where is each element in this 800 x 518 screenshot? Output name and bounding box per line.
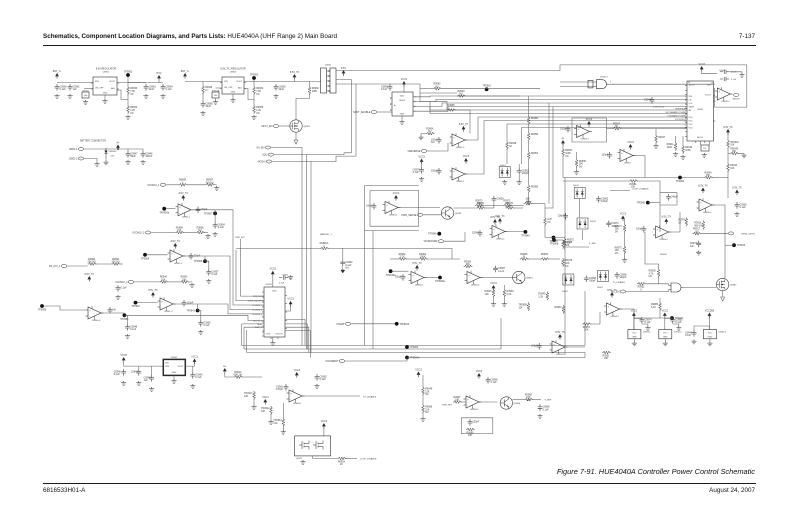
power P34 VCC3 xyxy=(191,355,198,364)
node N49 label U0954-2 xyxy=(674,332,683,334)
wire W93 xyxy=(124,315,127,324)
svg-text:8.5V_TX: 8.5V_TX xyxy=(555,331,565,334)
svg-text:10: 10 xyxy=(684,121,686,123)
wire W132 xyxy=(590,312,600,324)
node N20 label D0951 xyxy=(500,165,507,167)
wire W47 xyxy=(727,132,729,139)
wire W107 xyxy=(511,205,524,207)
resistor R0897 xyxy=(562,148,573,158)
svg-text:TP0949: TP0949 xyxy=(521,235,530,238)
svg-text:VCC3: VCC3 xyxy=(620,212,627,215)
wire W56 xyxy=(427,143,448,151)
transistor Q0992 inner right xyxy=(313,441,323,450)
op-amp U0949-3 xyxy=(618,149,636,165)
svg-text:D0962: D0962 xyxy=(597,287,604,289)
svg-text:8.5V_TX: 8.5V_TX xyxy=(412,262,422,265)
wire WTEMP1 xyxy=(242,323,264,325)
resistor R0966 xyxy=(202,85,213,94)
svg-text:GA_EN: GA_EN xyxy=(256,147,264,150)
svg-text:1K: 1K xyxy=(522,256,525,259)
capacitor C0952b xyxy=(108,307,117,314)
wire W92 xyxy=(101,312,124,314)
svg-text:J0951-2: J0951-2 xyxy=(69,158,78,161)
svg-text:22uF: 22uF xyxy=(206,105,212,108)
svg-text:U0952: U0952 xyxy=(399,100,406,102)
svg-text:240pF: 240pF xyxy=(671,195,678,198)
power P32 8.5V_TX xyxy=(555,331,565,340)
svg-text:VFB: VFB xyxy=(165,366,170,368)
svg-text:10K: 10K xyxy=(182,279,187,282)
power P33 VCC5 xyxy=(121,354,128,363)
wire WBIGR1 xyxy=(584,291,586,346)
svg-text:+: + xyxy=(290,392,292,395)
capacitor C0965 xyxy=(201,101,214,108)
resistor R0940 xyxy=(704,171,713,179)
svg-text:NU: NU xyxy=(649,275,653,278)
wire WB8b xyxy=(560,123,687,125)
wire WB9b xyxy=(560,127,687,129)
wire W131 xyxy=(503,297,505,302)
ground G11 xyxy=(251,115,256,119)
testpoint TP6 xyxy=(204,212,217,216)
resistor R0942b xyxy=(682,145,693,154)
resistor R0960 xyxy=(308,86,319,95)
wire W318 xyxy=(634,317,672,319)
ground G23 xyxy=(574,170,579,174)
svg-text:-: - xyxy=(179,212,180,215)
resistor R0968 xyxy=(527,184,538,193)
ground G18 xyxy=(739,73,744,77)
ground G24 xyxy=(741,154,746,158)
wire WTXD xyxy=(302,395,360,397)
transistor Q0963 xyxy=(441,207,462,219)
svg-text:VC3: VC3 xyxy=(689,127,694,129)
connector JRX RX_FLT_1 xyxy=(49,265,67,269)
wire WMOS2 xyxy=(311,156,356,161)
svg-text:5.1K: 5.1K xyxy=(651,306,656,309)
svg-text:0.1uF: 0.1uF xyxy=(685,334,692,337)
svg-text:100uF: 100uF xyxy=(145,155,152,158)
node N13 label VCONTROL xyxy=(675,119,687,121)
wire WRAIL553 xyxy=(545,107,553,209)
diode D0942 xyxy=(563,274,574,285)
svg-text:R0966: R0966 xyxy=(531,117,539,120)
resistor R0966b xyxy=(527,116,538,125)
resistor R0953b xyxy=(527,151,538,160)
wire W51 xyxy=(712,177,728,179)
svg-text:CS: CS xyxy=(689,99,693,101)
node N47 label V_REF xyxy=(545,400,552,402)
wire W34 xyxy=(729,72,742,73)
svg-text:8.5V_TX: 8.5V_TX xyxy=(85,273,95,276)
svg-text:100pF: 100pF xyxy=(601,200,608,203)
power P35 A+ xyxy=(223,365,227,374)
svg-text:VCC: VCC xyxy=(663,333,668,335)
svg-text:TP0963: TP0963 xyxy=(410,346,419,349)
wire W112 xyxy=(564,246,566,251)
wire W144 xyxy=(253,399,255,405)
svg-text:4: 4 xyxy=(685,100,686,102)
ground GARR xyxy=(341,267,345,273)
resistor R0958b xyxy=(518,302,529,311)
node NPIN60L2 label 5 xyxy=(685,104,686,106)
IC U0960 xyxy=(685,81,715,143)
power P26 VCC3 xyxy=(620,212,627,221)
svg-text:TP0945: TP0945 xyxy=(549,240,558,243)
wire W88 xyxy=(67,265,88,267)
wire WLD xyxy=(610,190,630,192)
wire W14 xyxy=(215,98,217,100)
svg-text:0: 0 xyxy=(323,245,325,248)
svg-text:Q0953: Q0953 xyxy=(526,278,533,280)
svg-text:100K: 100K xyxy=(667,146,673,149)
svg-text:Q0992: Q0992 xyxy=(296,458,303,460)
node NPIN60L7 label 10 xyxy=(684,121,686,123)
node NPIN08L4 label 6 xyxy=(263,316,264,318)
svg-text:R0968: R0968 xyxy=(531,186,539,189)
svg-text:U0954-2: U0954-2 xyxy=(674,332,683,334)
svg-text:1%: 1% xyxy=(130,112,134,115)
wire W54 xyxy=(455,110,470,134)
ground G61 xyxy=(707,342,712,346)
svg-text:VDD: VDD xyxy=(400,96,405,98)
op-amp LS940-1 xyxy=(715,87,733,103)
svg-text:LS940-1: LS940-1 xyxy=(721,101,730,103)
capacitor C0966 xyxy=(486,377,499,384)
testpoint TP23 xyxy=(732,243,746,247)
power P14 VCC3 xyxy=(463,155,470,164)
power P37 VCC3 xyxy=(262,396,269,405)
capacitor C0974 xyxy=(640,317,653,324)
wire W124 xyxy=(658,276,660,284)
wire WVC2 xyxy=(205,256,264,309)
wire W72 xyxy=(214,184,217,186)
node NPIN60L9 label 12 xyxy=(684,128,686,130)
wire W58 xyxy=(506,149,508,164)
node N15 label C0941 xyxy=(719,70,726,72)
svg-text:10K: 10K xyxy=(477,202,482,205)
power P15 VCC3 xyxy=(418,155,425,164)
wire W115 xyxy=(624,219,626,224)
testpoint TP2 xyxy=(250,73,259,80)
svg-text:U0951-2: U0951-2 xyxy=(456,147,465,149)
connector JSQU SQU xyxy=(262,153,274,157)
svg-text:-: - xyxy=(412,280,413,283)
wire W159 xyxy=(642,324,648,326)
svg-text:VC2: VC2 xyxy=(689,124,694,126)
svg-text:8.5V: 8.5V xyxy=(341,67,346,70)
wire W80 xyxy=(183,255,205,257)
node N50 label U0932-2 xyxy=(718,332,727,334)
resistor R0975 xyxy=(615,245,626,255)
wire W129 xyxy=(503,285,505,289)
wire W42 xyxy=(655,143,657,144)
svg-text:U0941-3: U0941-3 xyxy=(164,311,173,313)
ground G36 xyxy=(115,295,120,299)
svg-text:NU: NU xyxy=(113,308,117,311)
resistor R0961 xyxy=(398,253,407,261)
wire WQ3a xyxy=(454,207,477,209)
svg-text:-: - xyxy=(386,210,387,213)
node NPIN52R3 label 7 xyxy=(415,111,416,113)
svg-text:VCC3: VCC3 xyxy=(463,155,470,158)
ground G31 xyxy=(213,232,218,236)
svg-text:VCC3: VCC3 xyxy=(191,355,198,358)
svg-text:1uF: 1uF xyxy=(144,379,149,382)
node NPIN08L1 label 3 xyxy=(263,301,264,303)
wire W123 xyxy=(645,258,659,264)
svg-text:12K: 12K xyxy=(244,395,249,398)
svg-text:VOUT: VOUT xyxy=(236,81,243,83)
power P38 VCC3 xyxy=(321,420,328,429)
node NPIN60T label 28 xyxy=(711,83,713,85)
svg-text:3: 3 xyxy=(685,97,686,99)
resistor R0950 xyxy=(554,305,564,314)
capacitor C0964 xyxy=(161,84,174,91)
svg-text:0.1uF: 0.1uF xyxy=(203,324,210,327)
svg-text:PWR_SET: PWR_SET xyxy=(235,237,245,239)
op-amp U0941-1 xyxy=(176,203,194,219)
transistor Q0961 xyxy=(290,120,311,132)
svg-text:U0932-2: U0932-2 xyxy=(718,332,727,334)
svg-text:SPOT_ENABLE: SPOT_ENABLE xyxy=(353,111,371,114)
op-amp U0903-2 xyxy=(604,302,622,318)
svg-text:RX_FLT_1: RX_FLT_1 xyxy=(253,321,262,323)
svg-text:BAT_7+: BAT_7+ xyxy=(53,70,62,73)
wire W102 xyxy=(393,270,409,272)
wire W167 xyxy=(709,339,711,342)
node N21 label C0960 xyxy=(282,274,289,276)
svg-text:VCURRENT: VCURRENT xyxy=(325,360,339,363)
capacitor C0960a xyxy=(198,320,211,327)
svg-text:ON_OFF: ON_OFF xyxy=(224,87,233,89)
svg-text:-: - xyxy=(553,350,554,353)
svg-text:+: + xyxy=(467,398,469,401)
svg-text:5: 5 xyxy=(263,311,264,313)
svg-text:VCC3: VCC3 xyxy=(631,309,638,312)
wire W46 xyxy=(576,167,578,170)
ground G3 xyxy=(83,100,88,104)
svg-text:0.1uF VCC3: 0.1uF VCC3 xyxy=(653,107,665,109)
node N8 label 24V xyxy=(111,156,115,158)
wire W37 xyxy=(709,141,711,145)
svg-text:10K: 10K xyxy=(730,167,735,170)
svg-text:TP0962b: TP0962b xyxy=(400,323,410,326)
wire WB6 xyxy=(478,116,560,118)
node N48 label U0904-2 xyxy=(643,332,652,334)
ground G5 xyxy=(125,115,130,119)
wire W55 xyxy=(421,134,426,136)
svg-text:U0906-2: U0906-2 xyxy=(660,239,669,241)
wire WBIG3 xyxy=(247,352,585,354)
resistor R0962c xyxy=(419,253,428,261)
ground G49 xyxy=(190,384,195,388)
svg-text:R0958: R0958 xyxy=(531,133,539,136)
node NPIN52R2 label 6 xyxy=(415,106,416,108)
IC U0992 xyxy=(295,436,331,456)
ground G44 xyxy=(502,302,507,306)
resistor R0940a xyxy=(159,276,168,284)
capacitor C0962b xyxy=(517,168,530,175)
svg-text:TX_DISABLE: TX_DISABLE xyxy=(363,396,377,399)
wire W156 xyxy=(513,399,525,401)
power P1 BAT_7+ xyxy=(53,70,62,79)
svg-text:NU: NU xyxy=(345,267,349,270)
svg-text:R0953: R0953 xyxy=(531,152,539,155)
wire W9 xyxy=(159,81,163,83)
wire W161 xyxy=(633,339,635,342)
node N25 label VCON10_1 xyxy=(252,305,262,307)
wire W66 xyxy=(423,214,441,216)
svg-text:24V: 24V xyxy=(111,156,115,158)
ground G51 xyxy=(251,405,256,409)
svg-text:R0963: R0963 xyxy=(83,90,90,92)
svg-text:U0950-2: U0950-2 xyxy=(496,238,505,240)
testpoint TP16 xyxy=(395,322,410,326)
capacitor C0957a xyxy=(206,269,219,276)
wire W99 xyxy=(390,258,398,260)
svg-text:5.6K: 5.6K xyxy=(507,293,512,296)
svg-text:1%: 1% xyxy=(615,252,619,255)
svg-text:NU: NU xyxy=(431,141,435,144)
connector JMSIO xyxy=(733,93,739,96)
wire WU49o xyxy=(398,207,440,209)
wire W12 xyxy=(202,93,204,101)
resistor R0981 xyxy=(629,180,638,189)
power P41 VCC3 xyxy=(631,309,638,318)
svg-text:0.1uF: 0.1uF xyxy=(195,376,202,379)
wire W164 xyxy=(664,316,666,330)
capacitor C0979 xyxy=(413,167,424,174)
capacitor C0973 xyxy=(690,241,701,248)
svg-text:VCC3: VCC3 xyxy=(270,268,277,271)
node N43 label TX_DISABLE xyxy=(363,396,377,399)
svg-text:VFORWARD: VFORWARD xyxy=(424,240,438,243)
connector JRFPA xyxy=(728,232,734,235)
svg-text:-: - xyxy=(89,316,90,319)
IC R0963 xyxy=(82,92,89,98)
wire W13 xyxy=(216,87,223,89)
svg-text:VCON10_3: VCON10_3 xyxy=(115,281,128,284)
svg-text:0.1uF: 0.1uF xyxy=(60,88,67,91)
capacitor C0981 xyxy=(276,384,288,391)
wire W65 xyxy=(528,192,530,200)
wire W147 xyxy=(282,403,284,418)
capacitor C0978 xyxy=(531,343,541,350)
wire W22 xyxy=(296,94,310,120)
svg-text:+: + xyxy=(453,170,455,173)
svg-text:U0941-1: U0941-1 xyxy=(182,217,191,219)
resistor R0953 xyxy=(127,86,138,96)
wire W84 xyxy=(188,281,192,283)
svg-text:TP0960: TP0960 xyxy=(637,202,646,205)
svg-text:+: + xyxy=(453,136,455,139)
svg-text:7: 7 xyxy=(263,321,264,323)
wire WB0 xyxy=(413,95,560,98)
resistor R0952 xyxy=(127,105,138,115)
svg-text:10K: 10K xyxy=(177,229,182,232)
wire WBOXPS xyxy=(461,418,493,434)
wire W151 xyxy=(422,375,424,386)
resistor R0897a xyxy=(205,179,214,187)
resistor R0896 xyxy=(196,226,205,234)
wire WV1 xyxy=(336,80,352,153)
connector JVFWD VFORWARD xyxy=(424,240,444,244)
testpoint TP19 xyxy=(428,232,441,236)
node NPIN08L5 label 7 xyxy=(263,321,264,323)
wire W71 xyxy=(187,184,206,186)
capacitor C0960 xyxy=(55,84,68,91)
wire W168 xyxy=(694,326,709,330)
svg-text:30A NU: 30A NU xyxy=(205,181,214,184)
connector J0951-2 J0951-2 xyxy=(69,157,84,161)
wire WB1 xyxy=(413,100,560,102)
wire W17 xyxy=(253,80,255,86)
svg-text:11: 11 xyxy=(685,125,687,127)
wire W3 xyxy=(84,88,93,90)
ground G55 xyxy=(420,417,425,421)
footer date xyxy=(709,487,755,494)
svg-text:GND: GND xyxy=(400,114,405,116)
wire W19 xyxy=(244,89,254,100)
node NPIN08L8 label 10 xyxy=(262,336,264,338)
ground G10 xyxy=(230,98,235,102)
node N23 label PWR_SET xyxy=(253,296,263,298)
svg-text:VIN: VIN xyxy=(95,81,99,83)
resistor R0970b xyxy=(506,202,515,210)
svg-text:TP0953: TP0953 xyxy=(250,73,259,76)
capacitor C0947b xyxy=(560,126,570,133)
svg-text:0.1uF: 0.1uF xyxy=(498,270,505,273)
svg-text:0: 0 xyxy=(640,288,642,291)
svg-text:VCC: VCC xyxy=(632,333,637,335)
power P2 8.5V xyxy=(157,72,162,81)
svg-text:7: 7 xyxy=(685,111,686,113)
svg-text:SQU: SQU xyxy=(262,154,267,157)
svg-text:IL_REF: IL_REF xyxy=(589,243,597,245)
resistor R0972a xyxy=(524,198,533,206)
svg-text:NU: NU xyxy=(435,85,439,88)
IC U0932-2 xyxy=(703,330,716,339)
resistor R0912 xyxy=(261,406,272,415)
svg-text:100pF: 100pF xyxy=(531,344,538,347)
wire WBOXDN1 xyxy=(364,231,366,346)
resistor R0978 xyxy=(562,240,573,249)
svg-text:0.1uF: 0.1uF xyxy=(413,171,420,174)
svg-text:8.5V_TX: 8.5V_TX xyxy=(179,192,189,195)
wire W31 xyxy=(377,111,392,113)
ground G38 xyxy=(288,275,293,279)
node N19 label 0.1uF VCC3 xyxy=(653,107,665,109)
wire W69 xyxy=(514,207,524,209)
svg-text:TP0943: TP0943 xyxy=(737,244,746,247)
svg-text:100pF: 100pF xyxy=(201,208,208,211)
svg-text:0.1uF: 0.1uF xyxy=(166,88,173,91)
IC R0964A xyxy=(212,92,219,98)
svg-text:VIN: VIN xyxy=(165,363,169,365)
svg-text:8.5V_TX_REGULATOR: 8.5V_TX_REGULATOR xyxy=(220,68,246,71)
svg-text:U0949-1: U0949-1 xyxy=(389,214,398,216)
wire WU59o xyxy=(684,287,717,289)
power P24 8.5V_TX xyxy=(412,262,422,271)
capacitor C0955a xyxy=(182,300,194,307)
wire W141 xyxy=(192,366,194,372)
resistor R0965d xyxy=(466,428,475,437)
svg-text:+: + xyxy=(179,206,181,209)
node N28 label RX_FLT_1 xyxy=(253,321,262,323)
testpoint TP5 xyxy=(159,207,169,215)
svg-text:MCLK: MCLK xyxy=(689,85,695,87)
